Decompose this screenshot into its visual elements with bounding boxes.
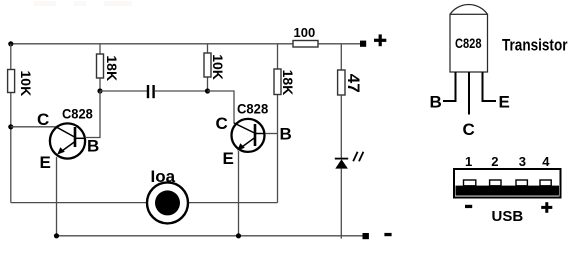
svg-text:C: C — [37, 110, 49, 129]
svg-text:18K: 18K — [280, 70, 296, 96]
node emitter Q2 bottom — [236, 233, 241, 238]
pin C lead — [468, 72, 470, 115]
resistor R5 100 body — [293, 41, 318, 48]
USB contact pin 2 — [490, 180, 501, 186]
svg-text:Ioa: Ioa — [151, 167, 176, 186]
svg-text:Transistor: Transistor — [502, 35, 568, 54]
svg-text:USB: USB — [492, 208, 524, 225]
svg-text:10K: 10K — [210, 54, 226, 80]
USB minus sign — [465, 205, 472, 208]
wire LED column top corner — [340, 44, 342, 70]
wire top rail — [11, 43, 293, 45]
svg-text:2: 2 — [491, 154, 498, 169]
node top-left corner — [8, 41, 13, 46]
wire emitter Q2 column — [238, 151, 240, 236]
svg-text:4: 4 — [542, 154, 550, 169]
svg-text:E: E — [223, 149, 234, 168]
wire capacitor left — [100, 90, 147, 92]
USB contact pin 4 — [540, 180, 551, 186]
resistor R6 47 body — [338, 70, 345, 95]
terminal square plus — [360, 41, 366, 47]
svg-text:C828: C828 — [62, 105, 93, 121]
wire collector Q1 — [11, 126, 57, 128]
node emitter Q1 bottom — [54, 233, 59, 238]
svg-text:10K: 10K — [18, 71, 34, 97]
wire top rail right of 100 resistor — [318, 43, 361, 45]
LED light marks — [353, 152, 363, 161]
wire capacitor right — [155, 90, 208, 92]
resistor R1 10K body — [8, 70, 15, 93]
capacitor C1 — [148, 85, 154, 98]
diode LED D1 — [335, 159, 348, 169]
svg-text:47: 47 — [344, 74, 363, 93]
svg-text:18K: 18K — [104, 55, 120, 81]
resistor R2 18K column wire — [99, 44, 101, 91]
node collector Q1 junction — [8, 124, 13, 129]
cropped text artifact top — [34, 1, 132, 6]
USB contact pin 1 — [464, 180, 476, 186]
wire 47 to LED — [340, 95, 342, 159]
transistor package body — [450, 4, 488, 72]
svg-text:C: C — [216, 114, 228, 133]
wire base Q2 — [265, 133, 277, 135]
svg-text:B: B — [87, 137, 99, 156]
speaker Ioa outer — [147, 182, 188, 223]
node base net Q1 — [97, 88, 102, 93]
svg-text:C828: C828 — [455, 35, 482, 51]
svg-text:B: B — [430, 93, 442, 112]
USB connector outline — [454, 169, 561, 198]
transistor Q1 C828 — [50, 123, 85, 158]
svg-text:100: 100 — [294, 25, 316, 40]
resistor R3 10K column wire — [207, 44, 209, 91]
speaker Ioa inner — [155, 190, 180, 215]
svg-text:3: 3 — [519, 154, 526, 169]
pin E lead — [483, 72, 497, 101]
resistor R2 18K body — [97, 54, 104, 78]
resistor R4 18K column wire — [277, 44, 279, 203]
svg-text:E: E — [40, 153, 51, 172]
transistor Q2 C828 — [232, 119, 266, 152]
wire speaker right — [189, 202, 278, 204]
USB tongue black bar — [456, 186, 560, 196]
wire LED to bottom rail — [340, 169, 342, 239]
svg-text:C828: C828 — [237, 101, 268, 117]
wire bottom rail — [57, 235, 363, 237]
terminal square minus — [363, 233, 369, 239]
resistor R4 18K body — [274, 69, 281, 95]
pin B lead — [443, 72, 456, 101]
minus sign supply — [384, 233, 391, 236]
wire base Q1 — [85, 91, 100, 138]
USB plus sign — [541, 202, 552, 213]
svg-text:C: C — [463, 120, 475, 139]
svg-text:E: E — [499, 93, 510, 112]
wire left rail — [10, 44, 12, 203]
svg-text:1: 1 — [465, 154, 472, 169]
svg-text:B: B — [280, 124, 292, 143]
resistor R3 10K body — [204, 53, 211, 77]
plus sign supply — [374, 34, 386, 46]
wire speaker left — [11, 202, 146, 204]
node collector net Q2 — [205, 88, 210, 93]
wire collector Q2 — [208, 91, 235, 124]
wire emitter Q1 column — [56, 157, 58, 236]
USB contact pin 3 — [516, 180, 527, 186]
